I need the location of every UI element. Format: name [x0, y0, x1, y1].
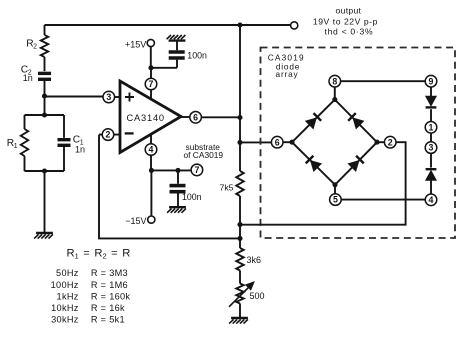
svg-text:R = 16k: R = 16k	[91, 303, 125, 313]
label C4 value	[182, 192, 202, 202]
label -15V	[125, 216, 146, 226]
label +15V	[125, 40, 146, 50]
label CA3019	[268, 53, 305, 63]
pin 3 array	[425, 142, 437, 154]
output terminal	[291, 22, 298, 29]
diode D1	[306, 113, 321, 128]
label of CA3019	[184, 150, 224, 160]
pin 6	[190, 112, 202, 124]
wire	[430, 87, 432, 96]
power -15V terminal	[148, 216, 155, 223]
svg-text:7: 7	[194, 165, 199, 175]
svg-text:2: 2	[388, 137, 393, 147]
svg-text:output: output	[336, 6, 362, 16]
wire	[430, 133, 432, 142]
node	[149, 168, 154, 173]
svg-text:19V to 22V p-p: 19V to 22V p-p	[313, 16, 378, 26]
label output	[336, 6, 362, 16]
label R2	[26, 38, 37, 50]
wire	[341, 199, 425, 201]
label diode	[276, 61, 300, 71]
node	[42, 112, 47, 117]
node	[148, 65, 153, 70]
potentiometer 500	[229, 282, 254, 307]
svg-text:1kHz: 1kHz	[57, 291, 79, 301]
label row 1kHz	[57, 291, 131, 301]
label output thd	[324, 27, 373, 37]
capacitor C1	[58, 115, 71, 171]
svg-text:100n: 100n	[182, 192, 202, 202]
wire loop	[240, 142, 406, 225]
wire	[45, 24, 291, 26]
power +15V terminal	[147, 39, 154, 46]
diode D4	[348, 156, 363, 171]
svg-text:1n: 1n	[75, 144, 85, 154]
wire	[44, 96, 46, 115]
pin 4 array	[425, 194, 437, 206]
node	[332, 182, 337, 187]
label 500	[250, 291, 265, 301]
pin 2 array	[384, 136, 396, 148]
wire	[430, 180, 432, 194]
wire	[239, 25, 241, 171]
label array	[276, 69, 299, 79]
wire	[240, 141, 271, 143]
label C1 value	[75, 144, 85, 154]
wire	[239, 196, 241, 248]
pin 3	[103, 91, 115, 103]
svg-text:2: 2	[106, 130, 111, 140]
resistor R3 7k5	[236, 171, 243, 196]
node	[237, 115, 242, 120]
wire	[239, 271, 241, 284]
node	[42, 168, 47, 173]
label substrate	[186, 142, 221, 152]
resistor R1	[21, 115, 28, 171]
wire	[115, 96, 120, 98]
wire	[181, 116, 190, 118]
svg-text:of CA3019: of CA3019	[184, 150, 224, 160]
svg-text:100Hz: 100Hz	[51, 280, 79, 290]
label 3k6	[247, 255, 262, 265]
label row 10kHz	[51, 303, 125, 313]
label C3 value	[187, 51, 207, 61]
svg-text:500: 500	[250, 291, 265, 301]
svg-text:+15V: +15V	[125, 40, 146, 50]
label R1=R2=R	[67, 247, 131, 260]
wire	[283, 141, 292, 143]
node	[289, 140, 294, 145]
ground	[167, 207, 186, 213]
wire	[201, 116, 240, 118]
node	[374, 140, 379, 145]
capacitor C3	[169, 41, 185, 58]
resistor R4 3k6	[236, 248, 243, 271]
wire	[45, 96, 104, 98]
wire	[99, 134, 120, 136]
wire	[25, 170, 65, 172]
wire	[150, 170, 152, 216]
capacitor C4	[170, 170, 186, 206]
svg-text:3k6: 3k6	[247, 255, 262, 265]
label row 100Hz	[51, 280, 128, 290]
svg-text:R = 5k1: R = 5k1	[91, 314, 125, 324]
node	[237, 222, 242, 227]
diode D3	[306, 156, 321, 171]
svg-text:50Hz: 50Hz	[56, 268, 79, 278]
node	[175, 168, 180, 173]
svg-text:9: 9	[429, 76, 434, 86]
svg-text:thd < 0·3%: thd < 0·3%	[324, 27, 373, 37]
node A	[42, 93, 47, 98]
svg-text:R = 160k: R = 160k	[91, 291, 131, 301]
svg-text:CA3140: CA3140	[127, 113, 165, 123]
CA3019 dashed outline	[261, 48, 456, 239]
node	[332, 97, 337, 102]
label R1	[7, 138, 18, 150]
wire feedback	[99, 135, 240, 239]
node output rail junction	[237, 22, 242, 27]
label output level	[313, 16, 378, 26]
svg-text:6: 6	[193, 112, 198, 122]
svg-text:3: 3	[429, 143, 434, 153]
diode D6	[426, 169, 437, 180]
svg-text:3: 3	[106, 92, 111, 102]
svg-text:R = 1M6: R = 1M6	[91, 280, 128, 290]
pin 4	[145, 144, 157, 156]
svg-text:−15V: −15V	[125, 216, 146, 226]
label C2 value	[23, 73, 33, 83]
label C1	[73, 135, 84, 147]
wire	[44, 171, 46, 233]
svg-text:7: 7	[149, 79, 154, 89]
pin 9	[425, 75, 437, 87]
wire	[25, 114, 65, 116]
svg-text:30kHz: 30kHz	[51, 314, 79, 324]
label row 50Hz	[56, 268, 128, 278]
wire	[150, 134, 152, 170]
svg-text:10kHz: 10kHz	[51, 303, 79, 313]
svg-text:7k5: 7k5	[219, 183, 233, 193]
pin 6 array	[271, 136, 283, 148]
svg-text:1: 1	[429, 122, 434, 132]
wire	[341, 80, 426, 82]
diode D5	[426, 96, 437, 107]
wire	[151, 169, 191, 171]
pin 7	[145, 78, 157, 90]
svg-text:1n: 1n	[23, 73, 33, 83]
pin 1	[425, 122, 437, 134]
svg-text:R = 3M3: R = 3M3	[91, 268, 128, 278]
pin 8	[329, 75, 341, 87]
label row 30kHz	[51, 314, 125, 324]
svg-text:5: 5	[333, 195, 338, 205]
label C2	[21, 65, 32, 77]
node	[237, 140, 242, 145]
resistor R2	[41, 25, 48, 71]
pin 2	[102, 129, 114, 141]
wire	[239, 304, 241, 318]
op-amp U1 CA3140	[120, 81, 181, 153]
wire	[151, 47, 177, 68]
diode D2	[348, 113, 363, 128]
svg-text:4: 4	[149, 145, 154, 155]
svg-text:100n: 100n	[187, 51, 207, 61]
wire	[377, 141, 384, 143]
pin 5	[330, 194, 342, 206]
ground	[229, 318, 248, 324]
wire	[430, 153, 432, 167]
capacitor C2	[38, 73, 51, 96]
wire	[430, 109, 432, 121]
ground	[34, 233, 53, 239]
wire	[292, 100, 377, 185]
ground	[167, 35, 186, 41]
svg-text:array: array	[276, 69, 299, 79]
svg-text:4: 4	[429, 195, 434, 205]
svg-text:8: 8	[332, 76, 337, 86]
pin 7 CA3019 substrate	[191, 164, 203, 176]
label 7k5	[219, 183, 233, 193]
wire	[150, 68, 152, 100]
wire	[334, 87, 336, 100]
wire	[334, 185, 336, 194]
svg-text:6: 6	[275, 137, 280, 147]
node	[237, 236, 242, 241]
